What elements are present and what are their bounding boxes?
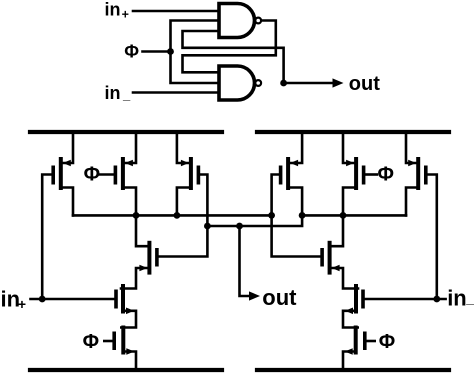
wire U2 output to out: [284, 82, 333, 85]
arrow out (latch): [333, 78, 344, 87]
M8 drain to node B and M10 drain: [332, 188, 355, 247]
M6 source to VSS: [125, 352, 136, 371]
svg-text:+: +: [122, 8, 129, 22]
svg-text:Φ: Φ: [124, 42, 139, 62]
transistor M7 (right cross-coupled load): [286, 157, 290, 190]
M5 source to M6 drain: [121, 311, 136, 328]
M4 drain arrow: [139, 265, 147, 272]
node A line (left drain node): [73, 214, 272, 217]
M3 drain to node A: [177, 188, 189, 216]
svg-text:_: _: [122, 87, 131, 102]
M10 source to M11 drain: [332, 268, 358, 289]
wire in+ to U1 pin 1: [133, 10, 219, 13]
svg-text:Φ: Φ: [83, 331, 99, 353]
svg-text:in: in: [447, 285, 467, 310]
transistor M10 (right regeneration): [328, 241, 332, 275]
svg-text:out: out: [262, 285, 297, 310]
nand gate U1: [219, 4, 255, 38]
M7 drain to node B: [290, 188, 302, 216]
M8 source stub to VDD: [343, 132, 354, 163]
nand gate U2: [219, 66, 254, 100]
M1 source stub to VDD: [63, 132, 73, 163]
svg-text:_: _: [465, 290, 474, 306]
M2 gate wire: [99, 173, 114, 176]
junction in- node: [433, 296, 440, 303]
transistor M4 (left regeneration): [147, 241, 151, 275]
M9 drain to node B: [406, 188, 416, 216]
wire in- to U2 pin 3: [133, 91, 219, 94]
transistor M6 (left tail, phi): [121, 326, 125, 355]
M7 source arrow: [290, 160, 298, 167]
wire feedback U1 output to U2 pin 1: [183, 21, 276, 73]
M8 source arrow: [346, 160, 354, 167]
junction in+ node: [39, 296, 46, 303]
M9 source arrow: [408, 160, 416, 167]
M1 drain to node A: [63, 188, 73, 216]
junction phi node: [167, 48, 174, 55]
svg-text:out: out: [349, 73, 380, 95]
M11 source to M12 drain: [343, 311, 358, 328]
junction node A / M3 drain: [174, 212, 181, 219]
M3 source arrow: [181, 160, 189, 167]
junction node B / M8-M10: [340, 212, 347, 219]
wire feedback U2 output to U1 pin 3: [183, 31, 284, 83]
VSS rail (right): [257, 368, 449, 372]
M6 source arrow: [126, 348, 134, 355]
svg-text:Φ: Φ: [378, 164, 394, 186]
M5 source arrow: [126, 308, 134, 315]
wire phi stub: [143, 50, 171, 53]
transistor M2 (left precharge): [121, 157, 125, 190]
VDD rail (left): [30, 130, 222, 134]
svg-text:+: +: [18, 296, 26, 312]
M3 gate + M4 gate wire to node B: [159, 175, 208, 257]
M2 source arrow: [125, 160, 133, 167]
transistor M11 (right input, in-): [354, 284, 358, 314]
transistor M8 (right precharge): [354, 157, 358, 190]
transistor M12 (right tail, phi): [354, 326, 358, 355]
transistor M9 (right load): [416, 157, 420, 190]
M4 source to M5 drain: [121, 268, 147, 289]
M2 drain to node A and M4 drain: [125, 188, 147, 247]
VSS rail (left): [30, 368, 222, 372]
wire in- to M11 gate: [365, 298, 446, 301]
M3 source stub to VDD: [177, 132, 189, 163]
M8 gate wire: [365, 173, 376, 176]
junction node A / M7-M10 gates: [268, 212, 275, 219]
M12 source arrow: [345, 348, 353, 355]
wire phi to U1 pin 2 and U2 pin 2: [171, 21, 220, 84]
arrow out (comparator): [249, 291, 260, 300]
transistor M1 (left load): [59, 157, 63, 190]
M2 source stub to VDD: [125, 132, 136, 163]
junction node B / M3-M4 gates: [204, 223, 211, 230]
M7 gate + M10 gate wire to node A: [272, 175, 321, 257]
transistor M3 (left cross-coupled load): [189, 157, 193, 190]
M10 drain arrow: [332, 265, 340, 272]
junction node B / M7 drain: [299, 212, 306, 219]
M6 gate wire: [104, 340, 112, 343]
M7 source stub to VDD: [290, 132, 302, 163]
M12 source to VSS: [343, 352, 354, 371]
junction node B / out tap: [236, 223, 243, 230]
junction U2 output node: [280, 80, 287, 87]
M1 source arrow: [63, 160, 71, 167]
wire in+ to M5 gate: [31, 298, 115, 301]
junction node A / M2-M4: [133, 212, 140, 219]
M9 source stub to VDD: [406, 132, 416, 163]
M1 gate wire to in+ node: [42, 175, 51, 300]
node B line (right drain node, lower run): [207, 215, 302, 226]
M9 gate wire to in- node: [428, 175, 437, 300]
VDD rail (right): [257, 130, 449, 134]
node B line (upper run): [302, 214, 406, 217]
svg-text:Φ: Φ: [379, 331, 395, 353]
transistor M5 (left input, in+): [121, 284, 125, 314]
M11 source arrow: [345, 308, 353, 315]
wire out tap from node B: [240, 226, 250, 296]
svg-text:in: in: [105, 83, 121, 103]
M12 gate wire: [367, 340, 375, 343]
svg-text:in: in: [105, 0, 121, 20]
